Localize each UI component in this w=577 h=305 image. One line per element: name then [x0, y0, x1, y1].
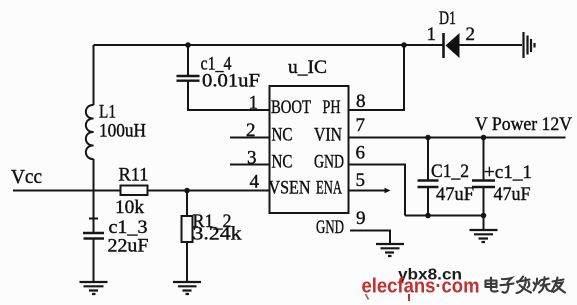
diode D1 triangle	[446, 33, 460, 58]
resistor R1_2	[182, 216, 193, 242]
svg-text:V Power 12V: V Power 12V	[475, 114, 572, 135]
node: junction bottom rail / c1_1	[481, 213, 487, 219]
ground under c1_1	[470, 230, 498, 242]
svg-text:C1_2: C1_2	[431, 161, 469, 182]
svg-text:Vcc: Vcc	[11, 166, 42, 188]
capacitor c1_3	[83, 233, 104, 239]
IC u_IC body	[270, 86, 349, 213]
wire c1_3 bottom to ground	[93, 239, 95, 283]
ground right of D1 (rotated)	[524, 32, 535, 58]
wire bottom rail joining capacitor bottoms	[405, 215, 484, 217]
ground under c1_3	[80, 282, 108, 294]
capacitor C1_2 top lead	[427, 138, 429, 181]
svg-text:6: 6	[356, 143, 366, 164]
svg-text:NC: NC	[272, 152, 293, 173]
svg-text:GND: GND	[316, 217, 344, 238]
svg-text:2: 2	[246, 120, 256, 141]
svg-text:GND: GND	[314, 152, 344, 173]
svg-text:8: 8	[356, 91, 366, 112]
svg-text:3: 3	[247, 148, 257, 169]
svg-text:22uF: 22uF	[108, 236, 149, 257]
svg-text:PH: PH	[323, 97, 341, 118]
svg-text:100uH: 100uH	[99, 121, 146, 142]
wire c1_4 bottom to IC pin 1 (BOOT)	[188, 81, 270, 110]
svg-text:47uF: 47uF	[436, 184, 474, 205]
capacitor C1_2	[418, 181, 439, 188]
capacitor C1_2 bottom lead	[427, 187, 429, 216]
svg-text:VIN: VIN	[314, 125, 342, 146]
svg-text:ENA: ENA	[316, 178, 342, 199]
node: junction top rail / c1_4	[185, 42, 191, 48]
svg-text:3.24k: 3.24k	[193, 224, 243, 245]
watermark red artifact	[408, 294, 410, 301]
svg-text:7: 7	[356, 115, 366, 136]
svg-text:4: 4	[250, 172, 260, 193]
wire top rail from L1 top to diode D1	[94, 44, 444, 46]
watermark chinese characters 电子发烧友	[486, 277, 566, 294]
resistor R11	[121, 186, 148, 196]
svg-text:VSEN: VSEN	[269, 178, 311, 199]
svg-text:BOOT: BOOT	[271, 97, 311, 118]
node: junction top rail / PH	[401, 42, 407, 48]
wire R1_2 branch down	[186, 191, 188, 217]
diode D1 cathode bar	[442, 33, 445, 58]
wire c1_4 branch: top rail down to capacitor	[187, 45, 189, 76]
capacitor c1_1 bottom lead to ground	[483, 187, 485, 230]
svg-text:NC: NC	[272, 125, 293, 146]
wire pin 3 stub	[230, 164, 270, 166]
plus polarity tick of c1_3	[89, 218, 98, 220]
wire pin 6 (GND) down to cap bottom rail	[349, 165, 406, 216]
node: junction Vcc rail / R1_2	[184, 188, 190, 194]
ground under R1_2	[173, 282, 201, 294]
svg-text:2: 2	[466, 24, 476, 45]
svg-text:47uF: 47uF	[494, 184, 531, 205]
wire left vertical from top rail down to L1	[93, 45, 95, 105]
wire from L1 bottom through Vcc rail crossing down to c1_3	[93, 159, 95, 233]
svg-text:L1: L1	[99, 102, 116, 123]
svg-text:10k: 10k	[115, 197, 145, 218]
wire Vcc rail to R11	[13, 190, 121, 192]
wire R1_2 bottom to ground	[186, 242, 188, 282]
inductor L1	[86, 105, 94, 159]
arrow on pin 5 stub	[385, 188, 391, 193]
svg-text:1: 1	[427, 24, 437, 45]
ground under pin 9	[376, 244, 404, 256]
svg-text:R11: R11	[119, 165, 149, 186]
svg-text:0.01uF: 0.01uF	[202, 71, 260, 92]
svg-text:D1: D1	[439, 8, 456, 29]
node: junction VIN rail / c1_1	[481, 135, 487, 141]
svg-text:1: 1	[249, 93, 259, 114]
wire R11 to IC pin 4 (VSEN)	[148, 190, 270, 192]
wire pin 5 (ENA) stub	[349, 190, 386, 192]
svg-text:+c1_1: +c1_1	[484, 162, 532, 183]
node: junction VIN rail / C1_2	[425, 135, 431, 141]
wire pin 8 (PH) up to top rail	[349, 45, 405, 110]
wire pin 7 (VIN) power rail	[349, 137, 566, 139]
capacitor c1_1	[472, 181, 495, 188]
svg-text:elecfans·com: elecfans·com	[362, 276, 480, 298]
capacitor c1_4	[177, 76, 200, 81]
svg-text:9: 9	[356, 208, 366, 229]
wire pin 9 GND to ground	[350, 231, 390, 245]
svg-text:5: 5	[356, 170, 366, 191]
watermark small artifact under e	[366, 294, 369, 300]
node: junction bottom rail / C1_2	[425, 213, 431, 219]
wire diode to right ground	[459, 44, 522, 46]
wire pin 2 stub	[230, 137, 270, 139]
capacitor c1_1 top lead	[483, 138, 485, 181]
svg-text:u_IC: u_IC	[288, 57, 327, 78]
